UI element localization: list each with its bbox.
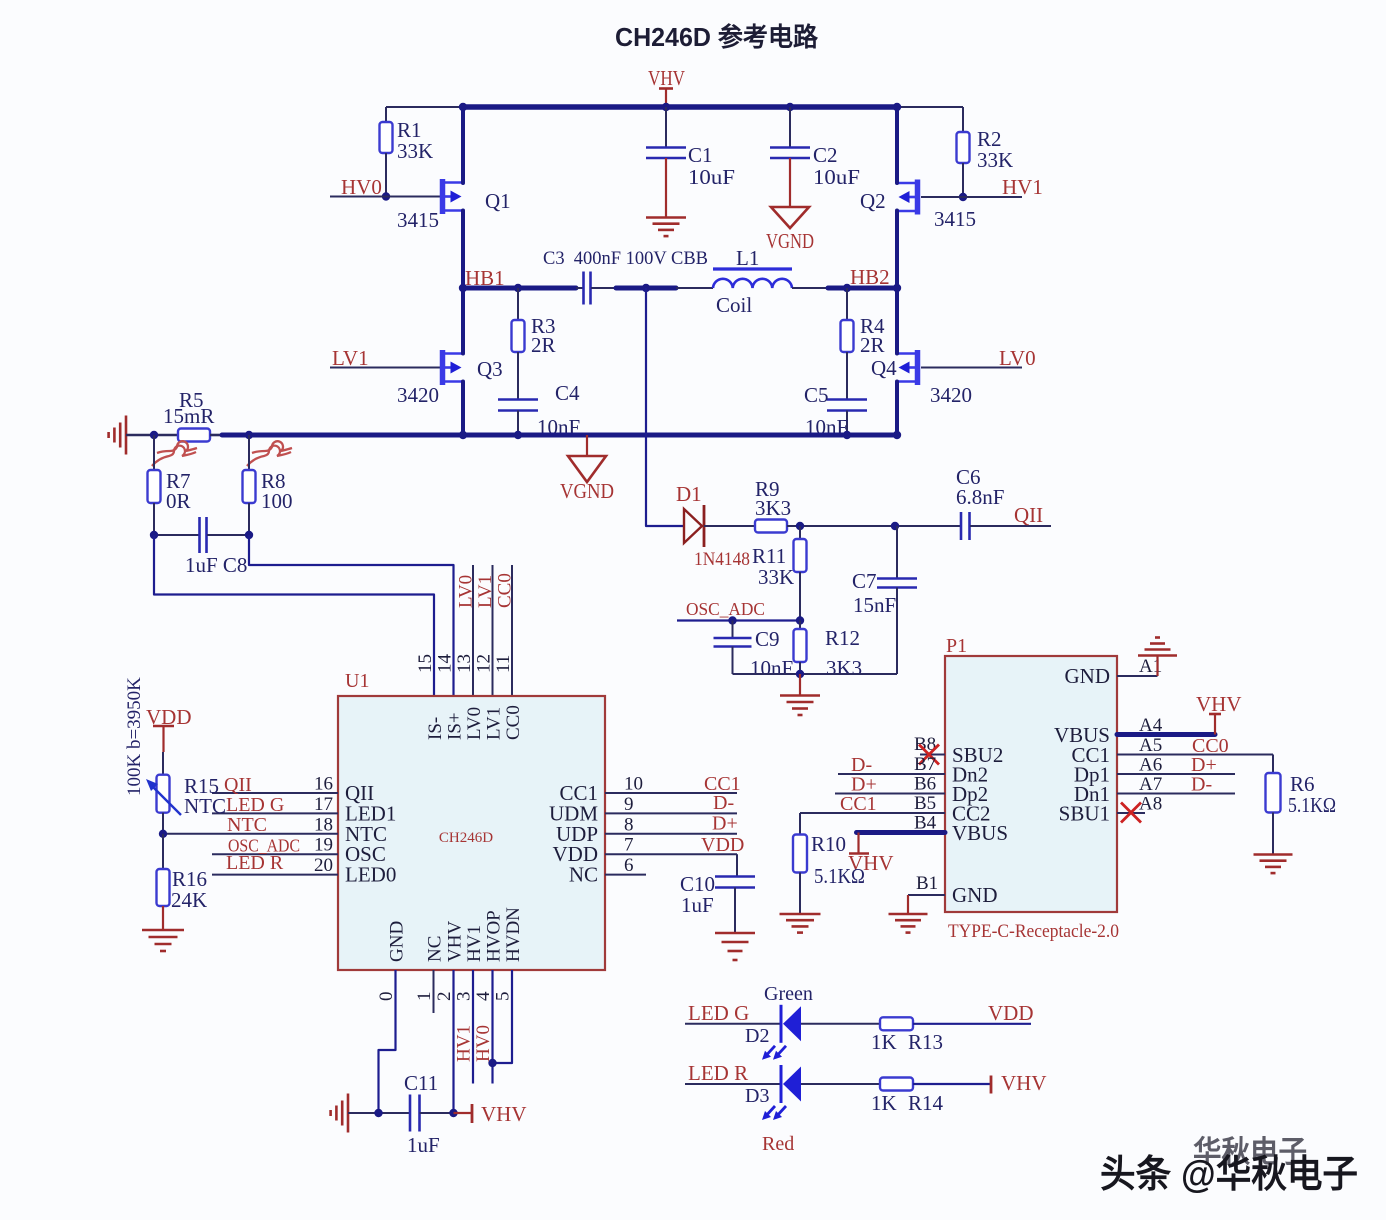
capacitor C10 1uF [680,872,755,932]
svg-text:100: 100 [261,489,293,513]
svg-text:100K b=3950K: 100K b=3950K [124,677,145,796]
svg-text:VHV: VHV [445,921,466,962]
wire R15 to junction [162,813,164,834]
pin number 7 [624,835,634,856]
pin number 17 [314,794,333,815]
connector P1 refdes [946,635,967,657]
svg-text:A5: A5 [1139,735,1162,756]
net label HV0 vertical [473,1025,494,1062]
wire gnd to C11 [348,1112,410,1114]
svg-text:HVDN: HVDN [503,907,524,962]
svg-text:OSC_ADC: OSC_ADC [686,599,765,619]
svg-text:C3 400nF 100V CBB: C3 400nF 100V CBB [543,248,708,269]
svg-text:33K: 33K [397,139,433,163]
pin number 0 [376,992,397,1002]
wire Q4 source to gnd bus [895,382,899,436]
wire pin 16 QII [212,792,338,794]
svg-text:5.1KΩ: 5.1KΩ [1288,793,1336,817]
svg-text:14: 14 [435,654,456,674]
power symbol VGND below gnd bus [560,435,614,503]
pin name NC [569,863,598,887]
svg-text:C11: C11 [404,1071,438,1095]
svg-text:LED0: LED0 [345,863,396,887]
net label VDD right [988,1001,1034,1025]
pin number 8 [624,814,634,835]
ground below C10 [715,933,755,960]
wire VDD to C10 [736,854,738,876]
net label CC0 [1192,735,1229,757]
svg-text:P1: P1 [946,635,967,657]
pin name VDD [553,842,599,866]
svg-text:5.1KΩ: 5.1KΩ [814,864,865,888]
wire VHV top bus [463,104,897,110]
net label CC1 [704,773,741,795]
pin A4 VBUS wire [1054,715,1215,747]
wire bus to R2 [897,106,963,108]
capacitor C5 10nF [804,383,867,439]
pin name NC [425,936,446,962]
capacitor C3 400nF 100V CBB [543,248,708,305]
wire HB1 mid segment [616,286,676,291]
power flag VHV at A4 [1196,692,1242,735]
pin name UDP [556,822,598,846]
svg-text:3K3: 3K3 [755,496,791,520]
svg-text:LV0: LV0 [456,575,477,608]
wire pin0 GND route [379,970,396,1113]
pin A5 CC1 wire [1071,735,1273,767]
net label D- left [851,754,872,776]
svg-text:10uF: 10uF [688,165,735,189]
inductor L1 Coil [713,246,792,317]
pin name IS+ [445,712,466,740]
net label NTC [227,814,267,836]
wire IS- route to pin15 [154,535,434,696]
pin number 10 [624,774,643,795]
net label LED R [226,852,284,874]
node pin4 pin5 junction [488,1059,496,1067]
svg-text:VGND: VGND [766,229,814,253]
pin name IS- [425,717,446,740]
svg-text:3420: 3420 [397,383,439,407]
wire R1 to bus [386,106,463,108]
wire Q3 source to gnd bus [461,382,465,436]
title CH246D reference circuit [615,22,819,52]
wire pin 8 UDP [605,833,737,835]
svg-text:VHV: VHV [1001,1071,1047,1095]
svg-text:Q1: Q1 [485,189,511,213]
wire D3 to R14 [801,1083,880,1085]
wire pin 9 UDM [605,812,737,814]
svg-text:1N4148: 1N4148 [694,549,750,570]
svg-text:CC1: CC1 [840,793,877,815]
net label LED R [688,1061,748,1085]
wire net HV1 [921,196,1022,198]
svg-text:1uF C8: 1uF C8 [185,553,247,577]
svg-text:12: 12 [474,654,495,673]
resistor R3 2R [512,288,556,399]
pin number 11 [493,655,514,673]
power flag VHV at R14 [991,1071,1047,1095]
pin number 9 [624,794,634,815]
ic U1 part name [439,830,493,846]
wire gnd bus main [210,434,897,437]
node HV1 junction [959,193,967,201]
svg-text:10uF: 10uF [813,165,860,189]
resistor R2 33K [957,107,1014,197]
net label LV0 [999,346,1036,370]
capacitor C2 10uF [770,107,860,207]
net label QII [224,774,252,796]
wire bottom rail C9 R12 C7 [733,673,898,675]
wire pin 20 LED0 [212,874,338,876]
wire HB1 bus [463,286,576,291]
resistor R5 15mR [163,388,214,442]
diode D1 1N4148 [676,482,750,570]
svg-text:VDD: VDD [988,1001,1034,1025]
svg-text:VHV: VHV [1196,692,1242,716]
wire pin3 stub [472,970,474,1084]
pin name HVOP [484,910,505,962]
wire HB2 bus [828,286,897,291]
resistor R4 2R [841,288,886,399]
svg-text:NC: NC [569,863,598,887]
svg-text:B5: B5 [914,793,936,814]
node QII filter taps [796,522,899,530]
svg-text:LV1: LV1 [475,575,496,608]
svg-text:24K: 24K [171,888,207,912]
svg-text:3420: 3420 [930,383,972,407]
svg-text:2R: 2R [860,333,885,357]
svg-text:NTC: NTC [184,794,226,818]
wire pin 17 LED1 [212,812,338,814]
wire pin1 stub [433,970,435,1013]
svg-text:Q4: Q4 [871,356,897,380]
svg-text:C4: C4 [555,381,580,405]
svg-text:6: 6 [624,855,634,876]
svg-text:D-: D- [713,792,734,814]
svg-text:3415: 3415 [934,207,976,231]
pin name HV1 [464,925,485,962]
ground below R6 [1254,855,1293,874]
wire net LED R [685,1083,781,1085]
svg-text:8: 8 [624,814,634,835]
svg-text:0: 0 [376,992,397,1002]
wire D2 to R13 [801,1023,880,1025]
svg-text:A1: A1 [1139,656,1162,677]
svg-text:17: 17 [314,794,333,815]
value label 100K b=3950K vertical [124,677,145,796]
capacitor C6 6.8nF [956,465,1051,540]
pin name VHV [445,921,466,962]
resistor R10 5.1K [793,813,865,914]
svg-text:18: 18 [314,814,333,835]
led D3 Red [745,1065,801,1155]
watermark ghost [1193,1136,1307,1169]
svg-text:D-: D- [1191,774,1212,796]
svg-text:LED R: LED R [226,852,284,874]
node bus corners and taps [459,103,901,111]
svg-text:10nF: 10nF [750,656,793,680]
svg-text:CC0: CC0 [495,573,516,608]
pin name QII [345,781,374,805]
wire net LED G [685,1023,781,1025]
power flag VHV top [648,66,685,107]
resistor R16 24K [157,834,208,929]
net label QII [1014,503,1043,527]
resistor R12 3K3 [794,621,863,681]
power flag VHV at B4 [848,833,894,876]
svg-text:6.8nF: 6.8nF [956,485,1004,509]
net label HV1 vertical [454,1025,475,1062]
svg-text:2: 2 [434,992,455,1002]
svg-text:4: 4 [473,991,494,1001]
transistor Q4 3420 [871,350,972,407]
net label LV0 vertical [456,575,477,608]
svg-text:R10: R10 [811,832,846,856]
wire IS+ route to pin14 [249,535,454,696]
node C8 ends [150,531,253,539]
net label LED G [688,1001,749,1025]
svg-text:1K: 1K [871,1091,897,1115]
svg-text:NTC: NTC [227,814,267,836]
svg-text:13: 13 [454,654,475,673]
svg-text:CH246D: CH246D [439,830,493,846]
ic U1 refdes [345,670,369,692]
svg-text:R12: R12 [825,626,860,650]
svg-text:A6: A6 [1139,755,1162,776]
net label HV0 [341,175,382,199]
node C11 right [449,1109,457,1117]
svg-text:IS+: IS+ [445,712,466,740]
svg-text:CC0: CC0 [503,705,524,740]
net label CC1 left [840,793,877,815]
resistor R7 0R [148,435,191,535]
pin name LV1 [484,707,505,740]
ground left of R5 [109,416,126,455]
pin number 12 [474,654,495,673]
wire pin12 stub [492,565,494,696]
svg-text:HB2: HB2 [850,265,890,289]
pin number 16 [314,774,333,795]
node rail junction [796,670,804,678]
pin name LED1 [345,801,396,825]
svg-text:HV0: HV0 [473,1025,494,1062]
ground above A1 [1138,638,1177,677]
pin number 5 [493,992,514,1002]
svg-text:10: 10 [624,774,643,795]
svg-text:B6: B6 [914,774,936,795]
pin number 18 [314,814,333,835]
pin name NTC [345,822,387,846]
svg-text:TYPE-C-Receptacle-2.0: TYPE-C-Receptacle-2.0 [948,922,1119,942]
ground below R10 [780,914,821,933]
svg-text:HV1: HV1 [1002,175,1043,199]
transistor Q1 3415 [397,179,511,232]
svg-text:B4: B4 [914,813,937,834]
svg-text:HV0: HV0 [341,175,382,199]
ground below C1 [646,218,686,237]
svg-text:VDD: VDD [701,834,744,856]
transistor Q2 3415 [860,180,976,232]
svg-text:Q3: Q3 [477,357,503,381]
net label LED G [226,794,284,816]
pin number 19 [314,835,333,856]
svg-text:Q2: Q2 [860,189,886,213]
resistor R9 3K3 [755,477,791,533]
capacitor C4 10nF [498,381,580,439]
pin number 3 [454,992,475,1002]
power symbol VGND below C2 [766,207,814,253]
wire Q1 source to HB1 [461,211,465,289]
svg-text:D1: D1 [676,482,702,506]
svg-text:GND: GND [952,883,998,907]
net label LV1 vertical [475,575,496,608]
pin name GND [387,921,408,962]
svg-text:LED R: LED R [688,1061,748,1085]
svg-text:LED G: LED G [688,1001,749,1025]
svg-text:SBU1: SBU1 [1059,802,1110,826]
pin name CC0 [503,705,524,740]
pin name HVDN [503,907,524,962]
pin name LV0 [464,707,485,740]
svg-text:1uF: 1uF [681,893,714,917]
wire HB1 to D1 [646,288,684,526]
pin number 14 [435,654,456,674]
svg-text:1uF: 1uF [407,1133,440,1157]
net tie marker at R7 [152,441,197,466]
svg-text:GND: GND [1065,664,1111,688]
node gnd bus taps [150,431,901,439]
svg-text:15mR: 15mR [163,404,214,428]
pin number 6 [624,855,634,876]
ground left of C11 [331,1094,348,1133]
ground below R16 [142,930,184,951]
resistor R11 33K [752,526,807,621]
capacitor C8 1uF [154,517,249,577]
svg-text:15: 15 [415,654,436,673]
svg-text:VHV: VHV [481,1102,527,1126]
svg-text:Green: Green [764,983,813,1005]
svg-text:GND: GND [387,921,408,962]
svg-text:LV0: LV0 [999,346,1036,370]
pin number 20 [314,855,333,876]
svg-text:D+: D+ [712,813,738,835]
ic U1 CH246D body [338,696,605,970]
svg-text:QII: QII [1014,503,1043,527]
transistor Q3 3420 [397,350,503,407]
wire Q3 drain from HB1 [461,288,465,354]
svg-text:D2: D2 [745,1025,769,1047]
capacitor C9 10nF [714,621,794,681]
net label D- right [1191,774,1212,796]
svg-text:33K: 33K [977,148,1013,172]
svg-text:A7: A7 [1139,774,1162,795]
pin number 15 [415,654,436,673]
ground below B1 [889,895,928,933]
pin name CC1 [559,781,598,805]
svg-text:C1: C1 [688,143,713,167]
svg-text:D3: D3 [745,1085,769,1107]
thermistor R15 NTC 100K [146,752,226,818]
wire net HV0 [330,196,440,198]
svg-text:3: 3 [454,992,475,1002]
svg-text:B7: B7 [914,754,936,775]
pin B6 Dp2 wire [835,774,988,807]
svg-text:QII: QII [224,774,252,796]
net label CC0 vertical [495,573,516,608]
svg-text:3K3: 3K3 [826,656,862,680]
wire pin 19 OSC [212,853,338,855]
svg-text:CH246D 参考电路: CH246D 参考电路 [615,22,819,52]
wire net OSC_ADC [677,619,800,621]
svg-text:B1: B1 [916,873,938,894]
svg-text:1: 1 [414,992,435,1002]
resistor R6 5.1K [1266,772,1337,854]
wire CC0 to R6 [1272,755,1274,774]
svg-text:IS-: IS- [425,717,446,740]
net label HB1 [465,266,505,290]
wire net LV1 [330,367,440,369]
pin A7 Dn1 wire [1074,774,1235,806]
svg-text:1K: 1K [871,1030,897,1054]
node NTC junction [159,830,167,838]
net label D+ left [851,774,877,796]
svg-text:HV1: HV1 [464,925,485,962]
wire pin13 stub [472,565,474,696]
node HB1 mid junction [642,284,650,292]
wire gnd bus left [126,434,178,437]
wire Q4 drain from HB2 [895,288,899,354]
wire pin 7 VDD [605,853,737,855]
svg-text:头条 @华秋电子: 头条 @华秋电子 [1100,1154,1358,1196]
pin B1 GND wire [908,873,998,907]
wire pin 18 NTC [162,833,338,835]
svg-text:20: 20 [314,855,333,876]
no-connect X at B8 [919,745,939,765]
pin B5 CC2 wire [800,793,991,826]
svg-text:A8: A8 [1139,794,1162,815]
svg-text:7: 7 [624,835,634,856]
pin number 13 [454,654,475,673]
svg-text:19: 19 [314,835,333,856]
svg-text:C9: C9 [755,627,780,651]
wire R13 to VDD [913,1023,1031,1025]
wire pin 6 NC [605,874,646,876]
node HB2 taps [843,284,901,292]
wire Q1 drain [461,107,465,183]
svg-text:C7: C7 [852,569,877,593]
net label HV1 [1002,175,1043,199]
power flag VHV at C11 [454,1102,527,1126]
pin B8 SBU2 wire [914,734,1003,767]
resistor R8 100 [243,435,293,535]
svg-text:5: 5 [493,992,514,1002]
svg-text:LV1: LV1 [484,707,505,740]
node HV0 junction [382,192,390,200]
wire coil to HB2 [792,287,828,289]
capacitor C1 10uF [646,107,735,217]
svg-text:16: 16 [314,774,333,795]
wire Q2 source to HB2 [895,211,899,289]
svg-text:LV1: LV1 [332,346,369,370]
svg-text:C5: C5 [804,383,829,407]
svg-text:L1: L1 [736,246,759,270]
pin name LED0 [345,863,396,887]
pin B4 VBUS wire [857,813,1009,846]
pin number 4 [473,991,494,1001]
wire net LV0 [921,367,1022,369]
svg-text:LV0: LV0 [464,707,485,740]
